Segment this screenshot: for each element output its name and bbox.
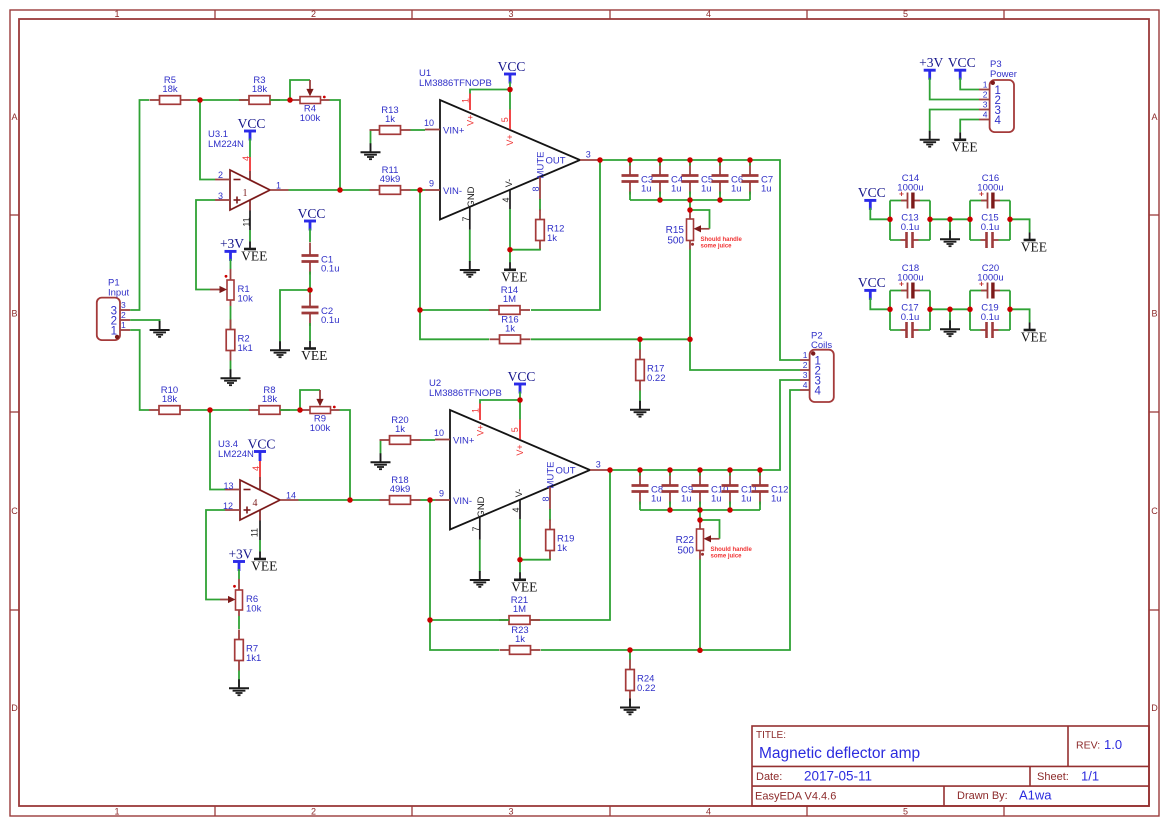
node cap bottom bus <box>0 0 1 1</box>
node left rail 2 <box>0 0 1 1</box>
junction <box>657 197 663 203</box>
svg-text:4: 4 <box>706 806 711 816</box>
wire mid bus to ground <box>949 219 951 231</box>
VEE power flag <box>301 341 327 363</box>
svg-text:Coils: Coils <box>811 340 832 351</box>
svg-text:5: 5 <box>903 9 908 19</box>
wire R17 leg <box>639 339 641 349</box>
svg-text:Magnetic deflector amp: Magnetic deflector amp <box>759 745 920 762</box>
VEE power flag <box>511 572 537 594</box>
wire feedback node 2 to R21 <box>531 470 611 620</box>
junction <box>337 187 343 193</box>
junction <box>517 397 523 403</box>
ground <box>630 401 650 417</box>
svg-text:1.0: 1.0 <box>1104 737 1122 752</box>
capacitor C5 <box>682 163 714 195</box>
svg-text:1000u: 1000u <box>977 272 1003 283</box>
svg-text:3: 3 <box>508 9 513 19</box>
node R14-R16 <box>0 0 1 1</box>
svg-text:VCC: VCC <box>498 59 526 74</box>
svg-text:18k: 18k <box>252 84 268 95</box>
wire R20 ground leg <box>380 440 382 454</box>
svg-text:+3V: +3V <box>919 55 943 70</box>
svg-text:100k: 100k <box>310 423 331 434</box>
ground <box>470 571 490 587</box>
junction <box>927 307 933 313</box>
svg-text:1k: 1k <box>515 634 525 645</box>
svg-text:1: 1 <box>983 80 988 90</box>
svg-text:7: 7 <box>471 526 481 531</box>
junction <box>887 307 893 313</box>
node R15 top <box>0 0 1 1</box>
svg-text:Should handle: Should handle <box>701 237 743 243</box>
wire cap C11 stubs <box>729 470 731 510</box>
wire VCC to P3 pin1 <box>960 78 979 90</box>
connector P2 <box>800 331 834 403</box>
node R10-R8 junction <box>0 0 1 1</box>
capacitor C10 <box>692 473 729 505</box>
wire U1 pin8 to R12 <box>539 199 541 211</box>
wire R22 bottom to row <box>699 551 701 651</box>
junction <box>297 407 303 413</box>
wire +3V to P3 pin2 <box>930 78 979 100</box>
wire cap block left rail 2 <box>969 201 971 241</box>
svg-text:VCC: VCC <box>298 206 326 221</box>
svg-text:1u: 1u <box>761 184 772 195</box>
wire cap C3 stubs <box>629 160 631 200</box>
VEE power flag <box>501 262 527 284</box>
node R15-R16 row <box>0 0 1 1</box>
wire cap bus to R22 <box>699 510 701 529</box>
svg-text:4: 4 <box>251 466 261 471</box>
junction <box>687 337 693 343</box>
svg-text:1u: 1u <box>731 184 742 195</box>
svg-text:1M: 1M <box>513 604 526 615</box>
svg-text:1u: 1u <box>771 494 782 505</box>
svg-text:1k1: 1k1 <box>238 343 253 354</box>
svg-text:GND: GND <box>476 496 487 517</box>
junction <box>967 307 973 313</box>
svg-text:0.1u: 0.1u <box>901 312 920 323</box>
wire P1 pin3 to R5 <box>130 100 149 310</box>
VEE power flag <box>251 552 277 574</box>
wire mid bus <box>930 308 970 310</box>
wire cap C7 stubs <box>749 160 751 200</box>
node cap C4 top <box>0 0 1 1</box>
ground <box>371 453 391 469</box>
node output <box>0 0 1 1</box>
svg-text:some juice: some juice <box>701 243 733 249</box>
node cap C9 top <box>0 0 1 1</box>
node mid bus ground <box>0 0 1 1</box>
svg-text:2: 2 <box>983 90 988 100</box>
svg-text:500: 500 <box>667 235 684 246</box>
node cap bottom bus <box>0 0 1 1</box>
junction <box>1007 217 1013 223</box>
wire R5 to R3 <box>191 99 250 101</box>
wire cap block left rail 2 <box>969 291 971 331</box>
VCC power flag <box>498 59 526 84</box>
svg-text:A: A <box>11 112 17 122</box>
svg-text:4: 4 <box>995 115 1002 127</box>
potentiometer R4 <box>290 96 330 124</box>
junction <box>687 197 693 203</box>
wire R9 wiper loop <box>300 390 324 410</box>
svg-text:10: 10 <box>424 118 434 128</box>
node cap bottom bus 2 <box>0 0 1 1</box>
junction <box>697 507 703 513</box>
svg-text:5: 5 <box>903 806 908 816</box>
VCC power flag <box>248 436 276 461</box>
wire cap block right rail 2 <box>1009 291 1011 331</box>
junction <box>597 157 603 163</box>
wire R24 to ground <box>629 700 631 702</box>
wire U1 output bus <box>598 160 800 360</box>
node cap C5 top <box>0 0 1 1</box>
junction <box>427 617 433 623</box>
svg-text:1u: 1u <box>701 184 712 195</box>
capacitor C19 <box>970 303 1010 339</box>
svg-text:VCC: VCC <box>858 275 886 290</box>
node cap C6 top <box>0 0 1 1</box>
svg-text:1u: 1u <box>671 184 682 195</box>
svg-text:4: 4 <box>803 380 808 390</box>
svg-text:Date:: Date: <box>756 771 782 783</box>
+3V power flag <box>228 546 252 571</box>
capacitor C7 <box>742 163 774 195</box>
junction <box>627 157 633 163</box>
node R21-R23 <box>0 0 1 1</box>
title block <box>752 726 1149 806</box>
wire +3V to R1 <box>230 259 232 269</box>
wire R20 to U2 pin10 <box>421 439 436 441</box>
wire VCC to cap block <box>870 298 890 309</box>
wire cap C10 stubs <box>699 470 701 510</box>
svg-text:4: 4 <box>815 386 822 398</box>
resistor R18 <box>380 475 421 504</box>
svg-text:8: 8 <box>531 186 541 191</box>
wire VCC to U2 V+ pins <box>480 392 520 420</box>
wire bottom cap bus <box>630 199 750 201</box>
svg-text:5: 5 <box>500 117 510 122</box>
potentiometer R22 <box>676 529 704 556</box>
wire to VEE <box>1010 219 1030 232</box>
wire U3.1 pin11 to VEE <box>249 230 251 242</box>
VCC power flag <box>508 369 536 394</box>
junction <box>517 557 523 563</box>
svg-text:OUT: OUT <box>556 465 576 476</box>
capacitor C11 <box>722 473 758 505</box>
node cap C8 top <box>0 0 1 1</box>
node U1 VEE-R12 <box>0 0 1 1</box>
svg-text:Input: Input <box>108 288 129 299</box>
wire R23 to P2 pin4 <box>541 390 800 650</box>
svg-text:GND: GND <box>466 186 477 207</box>
capacitor C20 <box>970 263 1010 299</box>
wire R24 leg <box>629 650 631 660</box>
wire VCC to cap block <box>870 208 890 219</box>
ground <box>460 261 480 277</box>
wire cap block right rail <box>929 291 931 331</box>
svg-text:LM3886TFNOPB: LM3886TFNOPB <box>419 78 492 89</box>
wire cap C5 stubs <box>689 160 691 200</box>
svg-text:4: 4 <box>511 507 521 512</box>
svg-text:100k: 100k <box>300 113 321 124</box>
svg-text:V+: V+ <box>475 425 485 436</box>
svg-text:VEE: VEE <box>1021 330 1047 345</box>
+3V power flag <box>919 55 943 80</box>
svg-text:1: 1 <box>114 806 119 816</box>
junction <box>427 497 433 503</box>
svg-text:1: 1 <box>114 9 119 19</box>
svg-text:10k: 10k <box>246 604 262 615</box>
svg-text:8: 8 <box>541 496 551 501</box>
ground <box>150 321 170 337</box>
svg-text:A1wa: A1wa <box>1019 788 1052 803</box>
resistor R14 <box>489 285 530 314</box>
capacitor C3 <box>622 163 654 195</box>
node left rail 2 <box>0 0 1 1</box>
svg-text:3: 3 <box>983 100 988 110</box>
junction <box>947 307 953 313</box>
wire R2 to ground <box>230 361 232 370</box>
wire R16 row <box>420 310 489 339</box>
junction <box>697 648 703 654</box>
resistor R20 <box>380 415 421 444</box>
potentiometer R6 <box>220 579 262 616</box>
svg-text:0.22: 0.22 <box>647 373 666 384</box>
wire feedback node to R14 <box>531 160 600 310</box>
junction <box>687 157 693 163</box>
junction <box>717 197 723 203</box>
junction <box>727 507 733 513</box>
junction <box>667 467 673 473</box>
wire U3.1 output to R11 <box>289 189 370 191</box>
junction <box>197 97 203 103</box>
wire cap block right rail 2 <box>1009 201 1011 241</box>
wire U3.4 output to R18 <box>299 499 380 501</box>
svg-text:V+: V+ <box>515 444 525 455</box>
junction <box>307 287 313 293</box>
svg-text:1k: 1k <box>547 233 557 244</box>
svg-text:1: 1 <box>460 98 470 103</box>
node R3-R4 junction <box>0 0 1 1</box>
junction <box>637 337 643 343</box>
wire U2 pin8 to R19 <box>549 509 551 521</box>
resistor R16 <box>490 315 531 344</box>
VEE power flag <box>951 132 977 154</box>
junction <box>417 187 423 193</box>
VCC power flag <box>238 116 266 141</box>
svg-text:Power: Power <box>990 69 1017 80</box>
node right rail 2 <box>0 0 1 1</box>
svg-text:V-: V- <box>504 179 514 188</box>
node cap C10 top <box>0 0 1 1</box>
svg-text:0.1u: 0.1u <box>321 315 340 326</box>
capacitor C1 <box>302 243 340 275</box>
wire cap block left rail <box>889 291 891 331</box>
potentiometer R15 <box>666 219 694 246</box>
node right rail 2 <box>0 0 1 1</box>
svg-text:TITLE:: TITLE: <box>756 730 786 741</box>
svg-text:VEE: VEE <box>951 139 977 154</box>
wire R7 to ground <box>238 671 240 680</box>
node mid bus ground <box>0 0 1 1</box>
wire cap C12 stubs <box>759 470 761 510</box>
wire to VEE <box>1010 309 1030 322</box>
node cap C7 top <box>0 0 1 1</box>
wire VCC to C1 <box>309 229 311 243</box>
resistor R10 <box>149 385 190 414</box>
svg-text:Should handle: Should handle <box>711 547 753 553</box>
svg-text:2: 2 <box>803 360 808 370</box>
wire P1 pin2 to ground <box>130 320 159 322</box>
resistor R12 <box>536 210 565 251</box>
ground <box>361 143 381 159</box>
node output-feedback 2 <box>0 0 1 1</box>
svg-text:0.1u: 0.1u <box>981 222 1000 233</box>
svg-text:1000u: 1000u <box>897 272 923 283</box>
svg-text:VEE: VEE <box>511 579 537 594</box>
junction <box>697 467 703 473</box>
wire cap C4 stubs <box>659 160 661 200</box>
resistor R11 <box>370 165 411 194</box>
svg-text:VCC: VCC <box>508 369 536 384</box>
ground <box>940 320 960 336</box>
svg-text:VCC: VCC <box>248 436 276 451</box>
annotation should handle some juice 2 <box>711 547 753 559</box>
VCC power flag <box>298 206 326 231</box>
resistor R19 <box>546 520 575 561</box>
svg-text:1000u: 1000u <box>897 182 923 193</box>
wire R1 to R2 <box>230 306 232 329</box>
capacitor C13 <box>890 213 930 249</box>
wire P3 pin4 to VEE <box>960 120 979 133</box>
svg-text:VIN-: VIN- <box>453 496 472 507</box>
svg-text:10k: 10k <box>238 294 254 305</box>
junction <box>727 467 733 473</box>
junction <box>627 647 633 653</box>
svg-text:9: 9 <box>439 489 444 499</box>
wire C1C2 node to ground <box>280 290 310 342</box>
capacitor C6 <box>712 163 744 195</box>
junction <box>687 207 693 213</box>
svg-text:VCC: VCC <box>948 55 976 70</box>
node right rail <box>0 0 1 1</box>
svg-text:VEE: VEE <box>1021 240 1047 255</box>
VCC power flag <box>858 275 886 300</box>
svg-text:1u: 1u <box>651 494 662 505</box>
wire R16 to R15 column <box>531 338 690 340</box>
svg-text:+3V: +3V <box>228 546 252 561</box>
svg-text:1: 1 <box>121 320 126 330</box>
svg-text:2: 2 <box>218 170 223 180</box>
wire P3 pin3 to ground <box>930 110 979 132</box>
resistor R8 <box>249 385 290 414</box>
wire R17 to ground <box>639 391 641 402</box>
resistor R13 <box>370 105 411 134</box>
wire cap bus to R15 <box>689 200 691 219</box>
op-amp U3.1 LM224N <box>208 129 289 230</box>
svg-text:3: 3 <box>596 460 601 470</box>
svg-text:2017-05-11: 2017-05-11 <box>804 769 872 784</box>
svg-text:4: 4 <box>501 197 511 202</box>
svg-text:1k1: 1k1 <box>246 653 261 664</box>
node cap C12 top <box>0 0 1 1</box>
wire C2 to VEE <box>309 323 311 341</box>
svg-text:1: 1 <box>803 350 808 360</box>
junction <box>507 87 513 93</box>
junction <box>697 517 703 523</box>
svg-text:4: 4 <box>983 110 988 120</box>
svg-text:C: C <box>11 506 18 516</box>
resistor R24 <box>626 660 656 701</box>
junction <box>347 497 353 503</box>
svg-text:B: B <box>11 309 17 319</box>
wire VCC to U1 V+ pins <box>470 82 510 110</box>
svg-text:1k: 1k <box>395 424 405 435</box>
resistor R23 <box>500 625 541 654</box>
svg-text:1u: 1u <box>741 494 752 505</box>
svg-text:0.22: 0.22 <box>637 683 656 694</box>
svg-text:18k: 18k <box>262 394 278 405</box>
svg-text:14: 14 <box>286 491 296 501</box>
svg-text:B: B <box>1151 309 1157 319</box>
svg-text:3: 3 <box>508 806 513 816</box>
capacitor C9 <box>662 473 694 505</box>
svg-text:1k: 1k <box>385 114 395 125</box>
capacitor C18 <box>890 263 930 299</box>
capacitor C2 <box>302 294 340 326</box>
svg-text:VIN-: VIN- <box>443 186 462 197</box>
ground <box>221 369 241 385</box>
junction <box>747 157 753 163</box>
wire +3V to R6 <box>238 569 240 579</box>
node R11-R14 junction <box>0 0 1 1</box>
node cap bottom bus 2 <box>0 0 1 1</box>
svg-text:3: 3 <box>121 300 126 310</box>
node cap bottom bus 2 <box>0 0 1 1</box>
VEE power flag <box>241 242 267 264</box>
wire R11 to U1 pin9 <box>411 189 426 191</box>
node R17 top <box>0 0 1 1</box>
node output 2 <box>0 0 1 1</box>
junction <box>667 507 673 513</box>
VEE power flag <box>1021 323 1047 345</box>
junction <box>947 217 953 223</box>
ground <box>270 341 290 357</box>
wire U3.1 pin3 to R1 wiper <box>196 200 215 290</box>
node C1-C2 <box>0 0 1 1</box>
wire R22 wiper loop <box>700 520 720 542</box>
svg-text:V-: V- <box>514 489 524 498</box>
svg-text:LM224N: LM224N <box>208 139 244 150</box>
wire U2 pin7 to ground <box>479 540 481 572</box>
annotation should handle some juice <box>701 237 743 249</box>
svg-text:1: 1 <box>243 188 248 199</box>
svg-text:1M: 1M <box>503 294 516 305</box>
svg-text:V+: V+ <box>505 134 515 145</box>
svg-text:D: D <box>1151 703 1158 713</box>
connector P3 <box>979 59 1017 132</box>
wire R15 wiper loop <box>690 210 710 232</box>
svg-text:1: 1 <box>111 326 117 338</box>
wire R18 to U2 pin9 <box>421 499 436 501</box>
svg-text:VEE: VEE <box>241 249 267 264</box>
svg-text:18k: 18k <box>162 394 178 405</box>
resistor R21 <box>499 595 540 624</box>
svg-text:49k9: 49k9 <box>380 174 401 185</box>
